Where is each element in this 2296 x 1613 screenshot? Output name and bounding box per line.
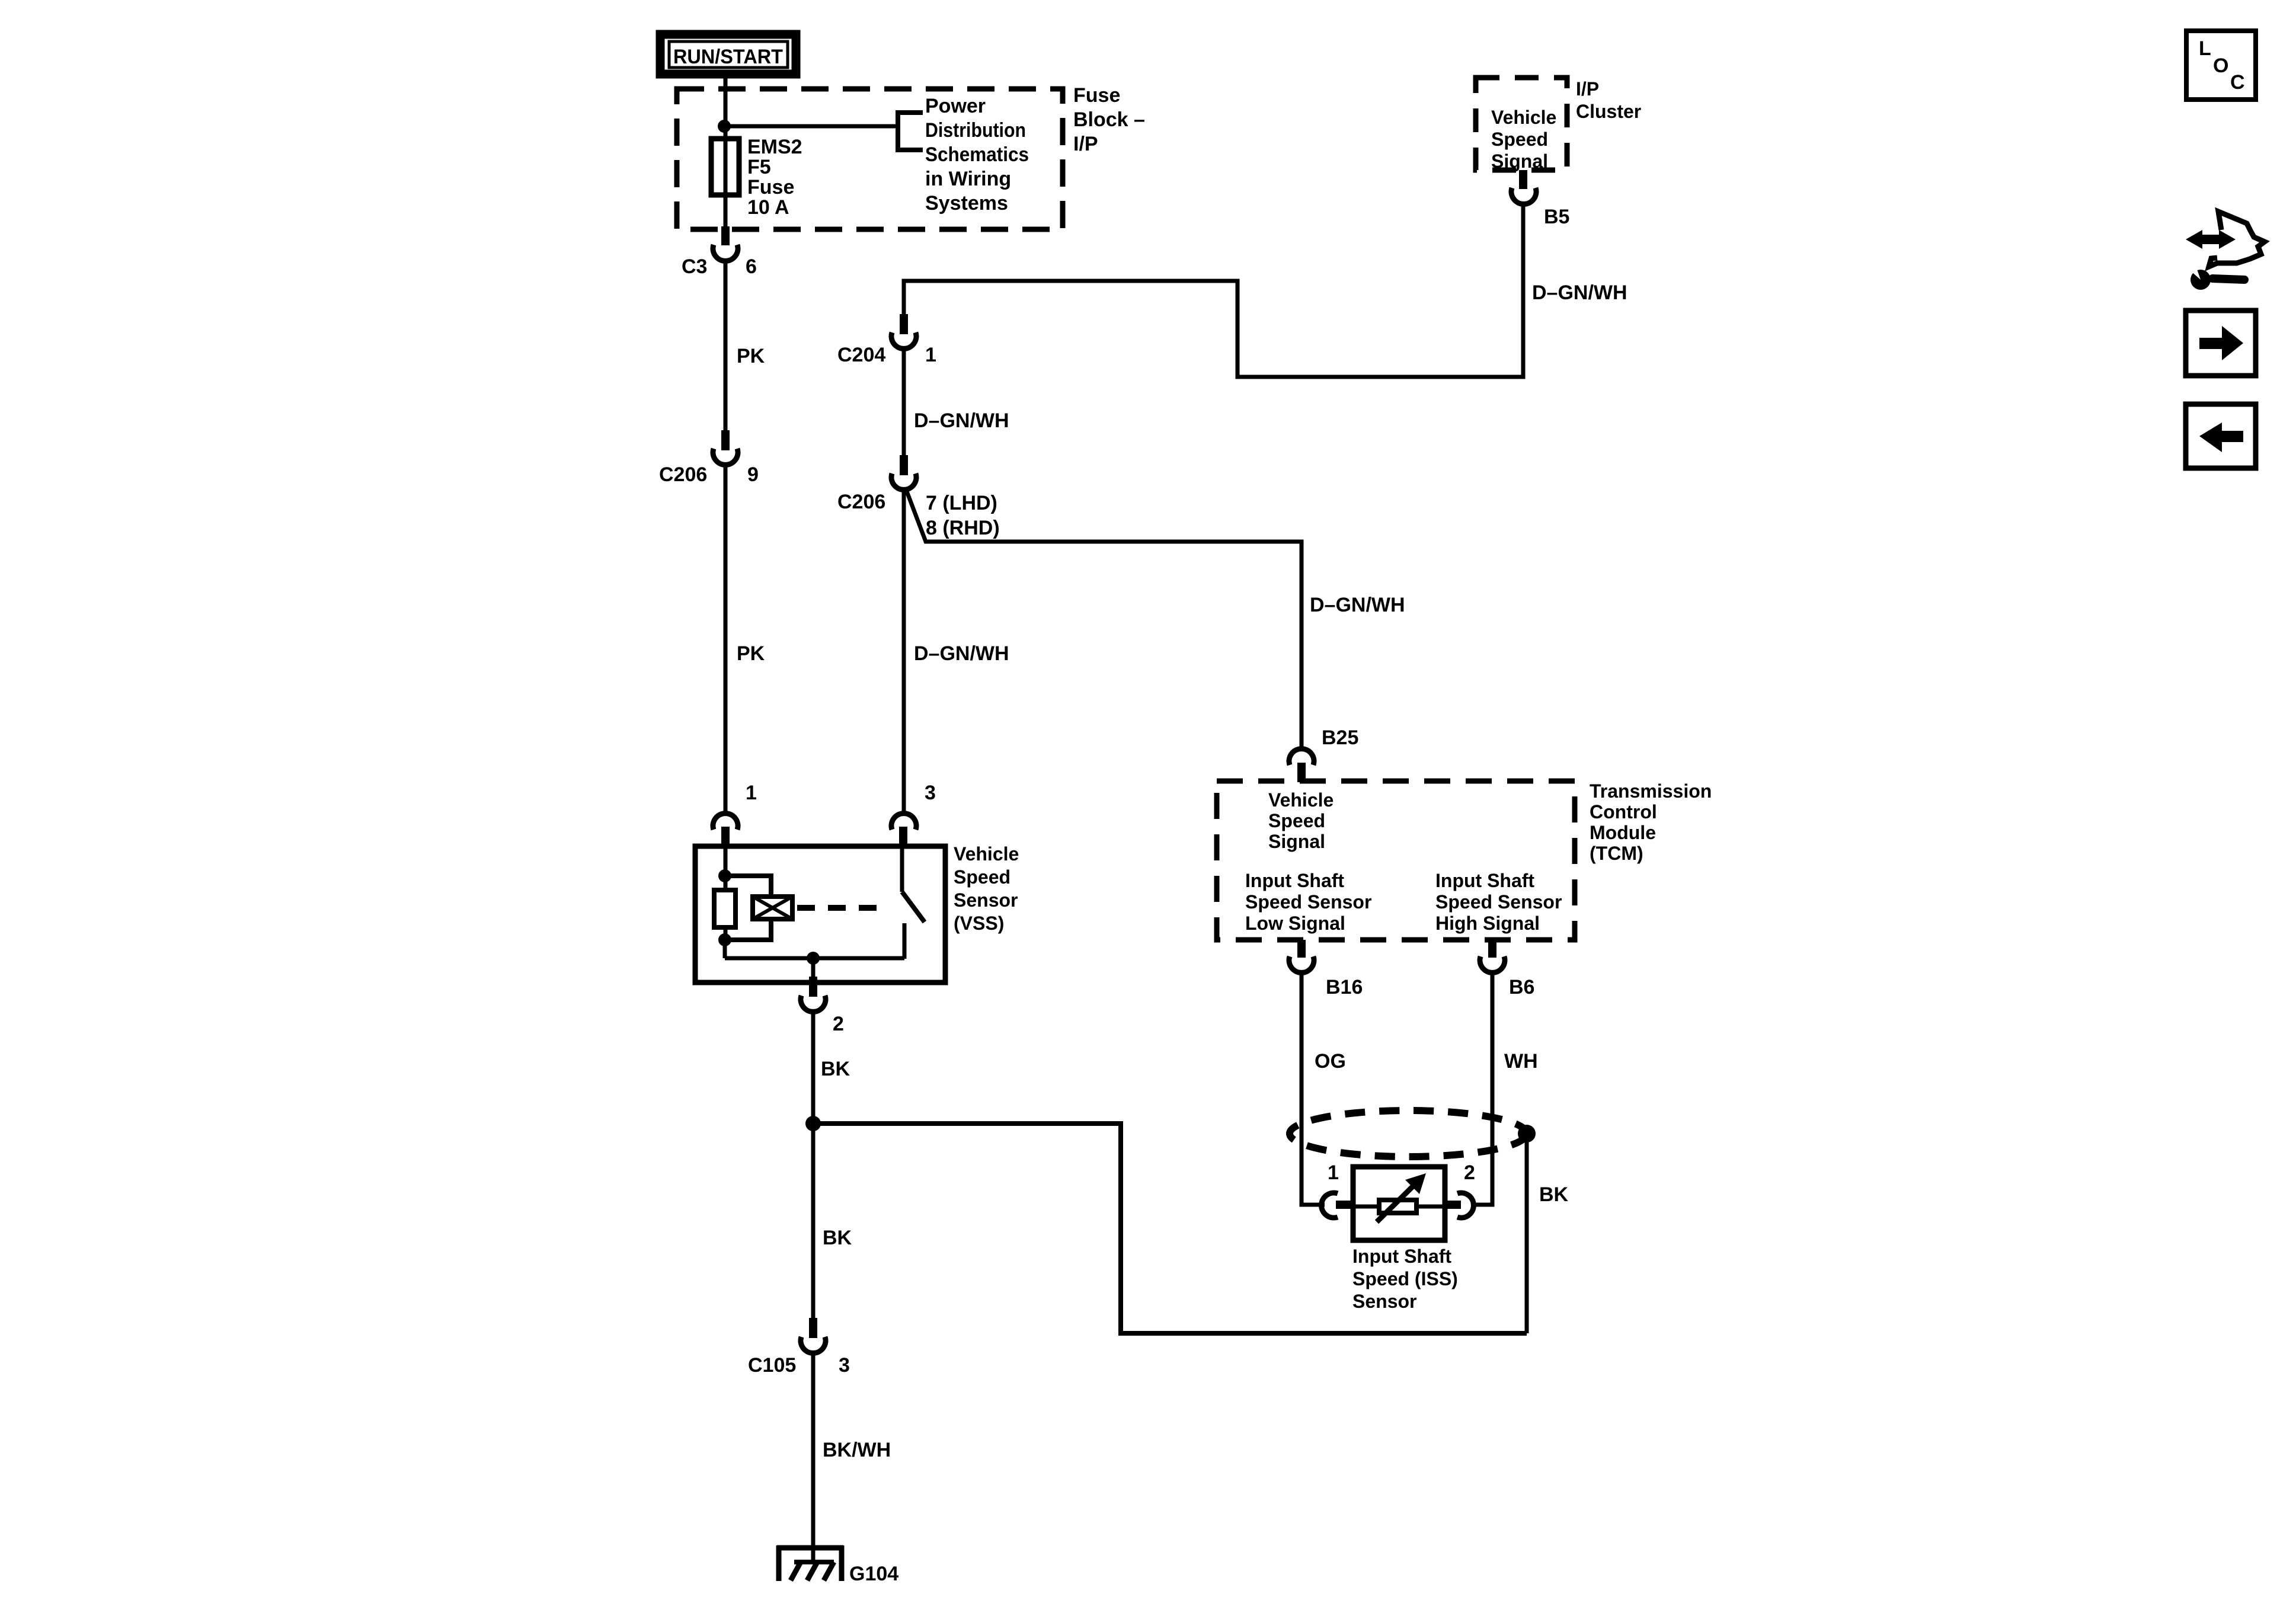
svg-text:Input Shaft: Input Shaft [1352, 1246, 1451, 1267]
svg-text:WH: WH [1504, 1050, 1538, 1073]
switch (VSS output) [902, 846, 925, 959]
svg-text:Sensor: Sensor [1352, 1291, 1416, 1312]
svg-text:D–GN/WH: D–GN/WH [1310, 594, 1405, 616]
svg-text:6: 6 [746, 255, 757, 278]
node BK junction dot [1518, 1125, 1536, 1142]
svg-text:Vehicle: Vehicle [954, 843, 1019, 865]
svg-text:D–GN/WH: D–GN/WH [914, 642, 1009, 665]
svg-text:Distribution: Distribution [925, 119, 1026, 142]
wire VSS pin2 to junction BK [811, 1010, 816, 1126]
connector VSS pin 2 [801, 977, 826, 1012]
connector B25 [1289, 749, 1314, 782]
svg-text:B6: B6 [1509, 976, 1534, 998]
svg-text:High Signal: High Signal [1435, 913, 1540, 934]
svg-text:Input Shaft: Input Shaft [1245, 870, 1344, 891]
svg-text:(VSS): (VSS) [954, 913, 1004, 934]
label Input Shaft Speed (ISS) Sensor [1352, 1246, 1458, 1312]
wire VSS bottom internal [723, 940, 727, 958]
svg-text:BK/WH: BK/WH [823, 1439, 891, 1461]
svg-text:B16: B16 [1326, 976, 1363, 998]
svg-text:Transmission: Transmission [1590, 780, 1712, 802]
svg-text:Speed: Speed [1268, 810, 1325, 831]
resistor (VSS internal) [714, 890, 736, 927]
svg-text:L: L [2199, 37, 2211, 60]
svg-text:C105: C105 [748, 1354, 796, 1377]
svg-text:Speed (ISS): Speed (ISS) [1352, 1268, 1458, 1289]
svg-text:1: 1 [1328, 1161, 1339, 1184]
svg-text:D–GN/WH: D–GN/WH [1532, 281, 1627, 304]
wire C206 down to VSS pin 3 D-GN/WH [902, 490, 906, 814]
connector C206 pins 7/8 [891, 455, 916, 489]
svg-text:D–GN/WH: D–GN/WH [914, 409, 1009, 432]
power source RUN/START [660, 34, 796, 74]
node dot VSS pin2 [807, 952, 820, 965]
label Transmission Control Module (TCM) [1590, 780, 1712, 864]
svg-text:OG: OG [1315, 1050, 1346, 1073]
wire junction to power distribution bracket [725, 124, 898, 129]
wire RUN/START to fuse [724, 78, 728, 228]
connector C204 pin 1 [891, 314, 916, 348]
svg-text:C206: C206 [837, 491, 885, 513]
connector VSS pin 1 [713, 814, 738, 847]
svg-text:(TCM): (TCM) [1590, 843, 1643, 864]
connector ISS pin 1 [1322, 1193, 1354, 1218]
svg-text:C206: C206 [659, 463, 707, 486]
wire B6 to ISS pin 2 WH [1472, 971, 1492, 1205]
svg-text:Module: Module [1590, 822, 1656, 843]
svg-text:RUN/START: RUN/START [673, 46, 783, 68]
connector C105 pin 3 [801, 1318, 826, 1353]
ISS harness dashed ellipse [1290, 1110, 1527, 1157]
svg-text:C: C [2230, 71, 2245, 94]
svg-text:Low Signal: Low Signal [1245, 913, 1345, 934]
svg-text:Vehicle: Vehicle [1491, 107, 1556, 128]
connector VSS pin 3 [891, 814, 916, 847]
svg-text:2: 2 [1464, 1161, 1475, 1184]
svg-text:1: 1 [925, 344, 936, 366]
label Vehicle Speed Sensor (VSS) [954, 843, 1019, 934]
svg-text:Signal: Signal [1268, 831, 1325, 852]
svg-text:C3: C3 [682, 255, 707, 278]
wire B16 to ISS pin 1 OG [1302, 971, 1325, 1205]
I/P Cluster dashed box [1476, 78, 1567, 170]
svg-text:10 A: 10 A [747, 196, 789, 219]
svg-text:9: 9 [747, 463, 759, 486]
connector B16 [1289, 940, 1314, 972]
fuse block I/P dashed box [677, 89, 1063, 229]
variable resistor in ISS [1379, 1200, 1416, 1213]
connector ISS pin 2 [1443, 1193, 1473, 1218]
wire C204 corner to cluster: top horizontal [904, 201, 1523, 377]
connector B5 [1511, 170, 1536, 204]
label Fuse Block - I/P [1073, 84, 1145, 155]
connector B6 [1480, 940, 1505, 972]
svg-text:EMS2: EMS2 [747, 136, 802, 158]
svg-text:B25: B25 [1322, 727, 1358, 749]
label I/P Cluster [1576, 78, 1641, 122]
node junction at fuse top [718, 120, 731, 133]
svg-text:PK: PK [737, 345, 765, 367]
wire splice down BK [811, 1124, 816, 1319]
svg-text:Systems: Systems [925, 192, 1008, 215]
coil (VSS pickup) [753, 897, 792, 919]
VSS box [695, 846, 945, 982]
label Input Shaft Speed Sensor Low Signal [1245, 870, 1371, 934]
TCM dashed box [1217, 781, 1575, 940]
svg-text:Power: Power [925, 95, 986, 117]
wire C105 to ground BK/WH [811, 1352, 816, 1564]
svg-text:1: 1 [746, 782, 757, 804]
wire coil branch [725, 876, 771, 897]
wire pin2 down [811, 958, 816, 979]
label Power Distribution Schematics in Wiring Systems [925, 95, 1029, 215]
svg-text:G104: G104 [849, 1563, 898, 1585]
connector C3 pin 6 [713, 226, 738, 261]
wire C3 to C206 PK [724, 260, 728, 431]
nav box arrow right [2186, 311, 2256, 376]
svg-text:Control: Control [1590, 801, 1657, 822]
wire C204 to C206 [902, 349, 906, 456]
svg-text:Signal: Signal [1491, 151, 1548, 172]
svg-text:F5: F5 [747, 156, 771, 178]
svg-text:PK: PK [737, 642, 765, 665]
svg-text:BK: BK [1539, 1183, 1569, 1206]
bracket to Power Distribution Schematics [898, 113, 923, 150]
svg-text:2: 2 [833, 1013, 844, 1035]
label Vehicle Speed Signal (cluster) [1491, 107, 1556, 172]
node dot resistor top [718, 869, 731, 882]
svg-text:8 (RHD): 8 (RHD) [926, 517, 1000, 539]
svg-text:C204: C204 [837, 344, 885, 366]
node BK splice junction [805, 1116, 821, 1131]
wire BK from dot down [1525, 1134, 1529, 1333]
svg-text:3: 3 [839, 1354, 850, 1377]
svg-text:Sensor: Sensor [954, 889, 1018, 911]
diagnostic icon: double arrow, car outline, wrench [2186, 212, 2265, 290]
ISS sensor box [1353, 1167, 1445, 1240]
fuse EMS2 F5 10A [711, 139, 739, 195]
svg-text:BK: BK [821, 1058, 850, 1080]
variable resistor arrow [1377, 1173, 1426, 1222]
svg-text:Fuse: Fuse [1073, 84, 1120, 107]
svg-text:B5: B5 [1544, 206, 1569, 228]
svg-text:Speed Sensor: Speed Sensor [1435, 891, 1562, 913]
label EMS2 F5 Fuse 10 A [747, 136, 802, 219]
label Vehicle Speed Signal (TCM) [1268, 789, 1334, 852]
wire C206 to VSS pin 1 PK [724, 465, 728, 814]
svg-text:I/P: I/P [1073, 133, 1098, 155]
wire VSS pin1 into box [724, 846, 728, 877]
svg-text:7 (LHD): 7 (LHD) [926, 492, 997, 514]
svg-text:in Wiring: in Wiring [925, 168, 1011, 190]
svg-text:Speed: Speed [1491, 129, 1548, 150]
ground G104 [777, 1545, 843, 1581]
svg-text:Cluster: Cluster [1576, 101, 1641, 122]
node dot resistor bottom [718, 933, 731, 946]
wire C206 slant to TCM B25 [906, 488, 1302, 750]
svg-text:Input Shaft: Input Shaft [1435, 870, 1534, 891]
svg-text:I/P: I/P [1576, 78, 1599, 100]
connector C206 pin 9 [713, 430, 738, 465]
svg-text:Vehicle: Vehicle [1268, 789, 1334, 811]
svg-text:Schematics: Schematics [925, 143, 1029, 166]
svg-text:Speed: Speed [954, 866, 1011, 888]
svg-text:Fuse: Fuse [747, 176, 794, 199]
svg-text:3: 3 [925, 782, 936, 804]
svg-text:Block –: Block – [1073, 108, 1145, 131]
nav box arrow left [2186, 404, 2256, 468]
svg-text:Speed Sensor: Speed Sensor [1245, 891, 1371, 913]
label Input Shaft Speed Sensor High Signal [1435, 870, 1562, 934]
wire through ISS sensor [1353, 1205, 1445, 1209]
wire splice to ISS return [813, 1124, 1527, 1333]
dashed mechanical link [797, 905, 889, 911]
svg-text:BK: BK [823, 1227, 852, 1249]
svg-text:O: O [2213, 55, 2228, 77]
LOC reference box [2186, 31, 2256, 100]
